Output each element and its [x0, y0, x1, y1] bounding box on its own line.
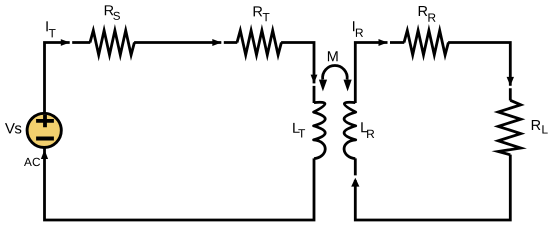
label LT	[293, 123, 299, 133]
label M	[328, 51, 338, 61]
current arrow mid	[212, 39, 221, 46]
wire left loop bottom	[45, 148, 315, 220]
current arrow into primary	[311, 75, 318, 84]
label AC	[24, 158, 32, 166]
label LR	[361, 122, 367, 132]
wire right loop bottom	[355, 155, 510, 220]
current arrow IT	[61, 39, 70, 46]
wire lead to RS	[72, 41, 90, 44]
current arrow IR	[379, 39, 388, 46]
mutual inductance arc M	[323, 66, 348, 80]
label IT	[46, 21, 47, 31]
current arrow into RL	[507, 77, 514, 86]
plus sign	[36, 115, 54, 128]
resistor RT	[237, 31, 281, 55]
AC source VS	[27, 113, 61, 147]
current arrow up into secondary	[351, 178, 359, 187]
wire RT to primary coil top	[281, 43, 314, 104]
wire between RS and RT	[134, 41, 237, 44]
label RL	[532, 120, 541, 130]
inductor LR (secondary)	[344, 102, 356, 158]
label RS	[105, 5, 114, 15]
label RT	[254, 6, 263, 16]
resistor RS	[90, 31, 134, 55]
resistor RR	[404, 31, 448, 55]
arrowhead M left	[319, 80, 327, 92]
label IR	[353, 21, 354, 31]
minus sign	[36, 137, 54, 141]
current arrow up into source	[41, 150, 48, 159]
wire top-left corner	[45, 43, 70, 114]
arrowhead M right	[344, 80, 352, 92]
inductor LT (primary)	[314, 102, 326, 158]
label Vs	[5, 123, 15, 133]
wire secondary top to RR	[355, 43, 404, 104]
resistor RL	[498, 100, 521, 155]
label RR	[419, 6, 428, 16]
wire RR to top-right corner	[448, 43, 510, 101]
